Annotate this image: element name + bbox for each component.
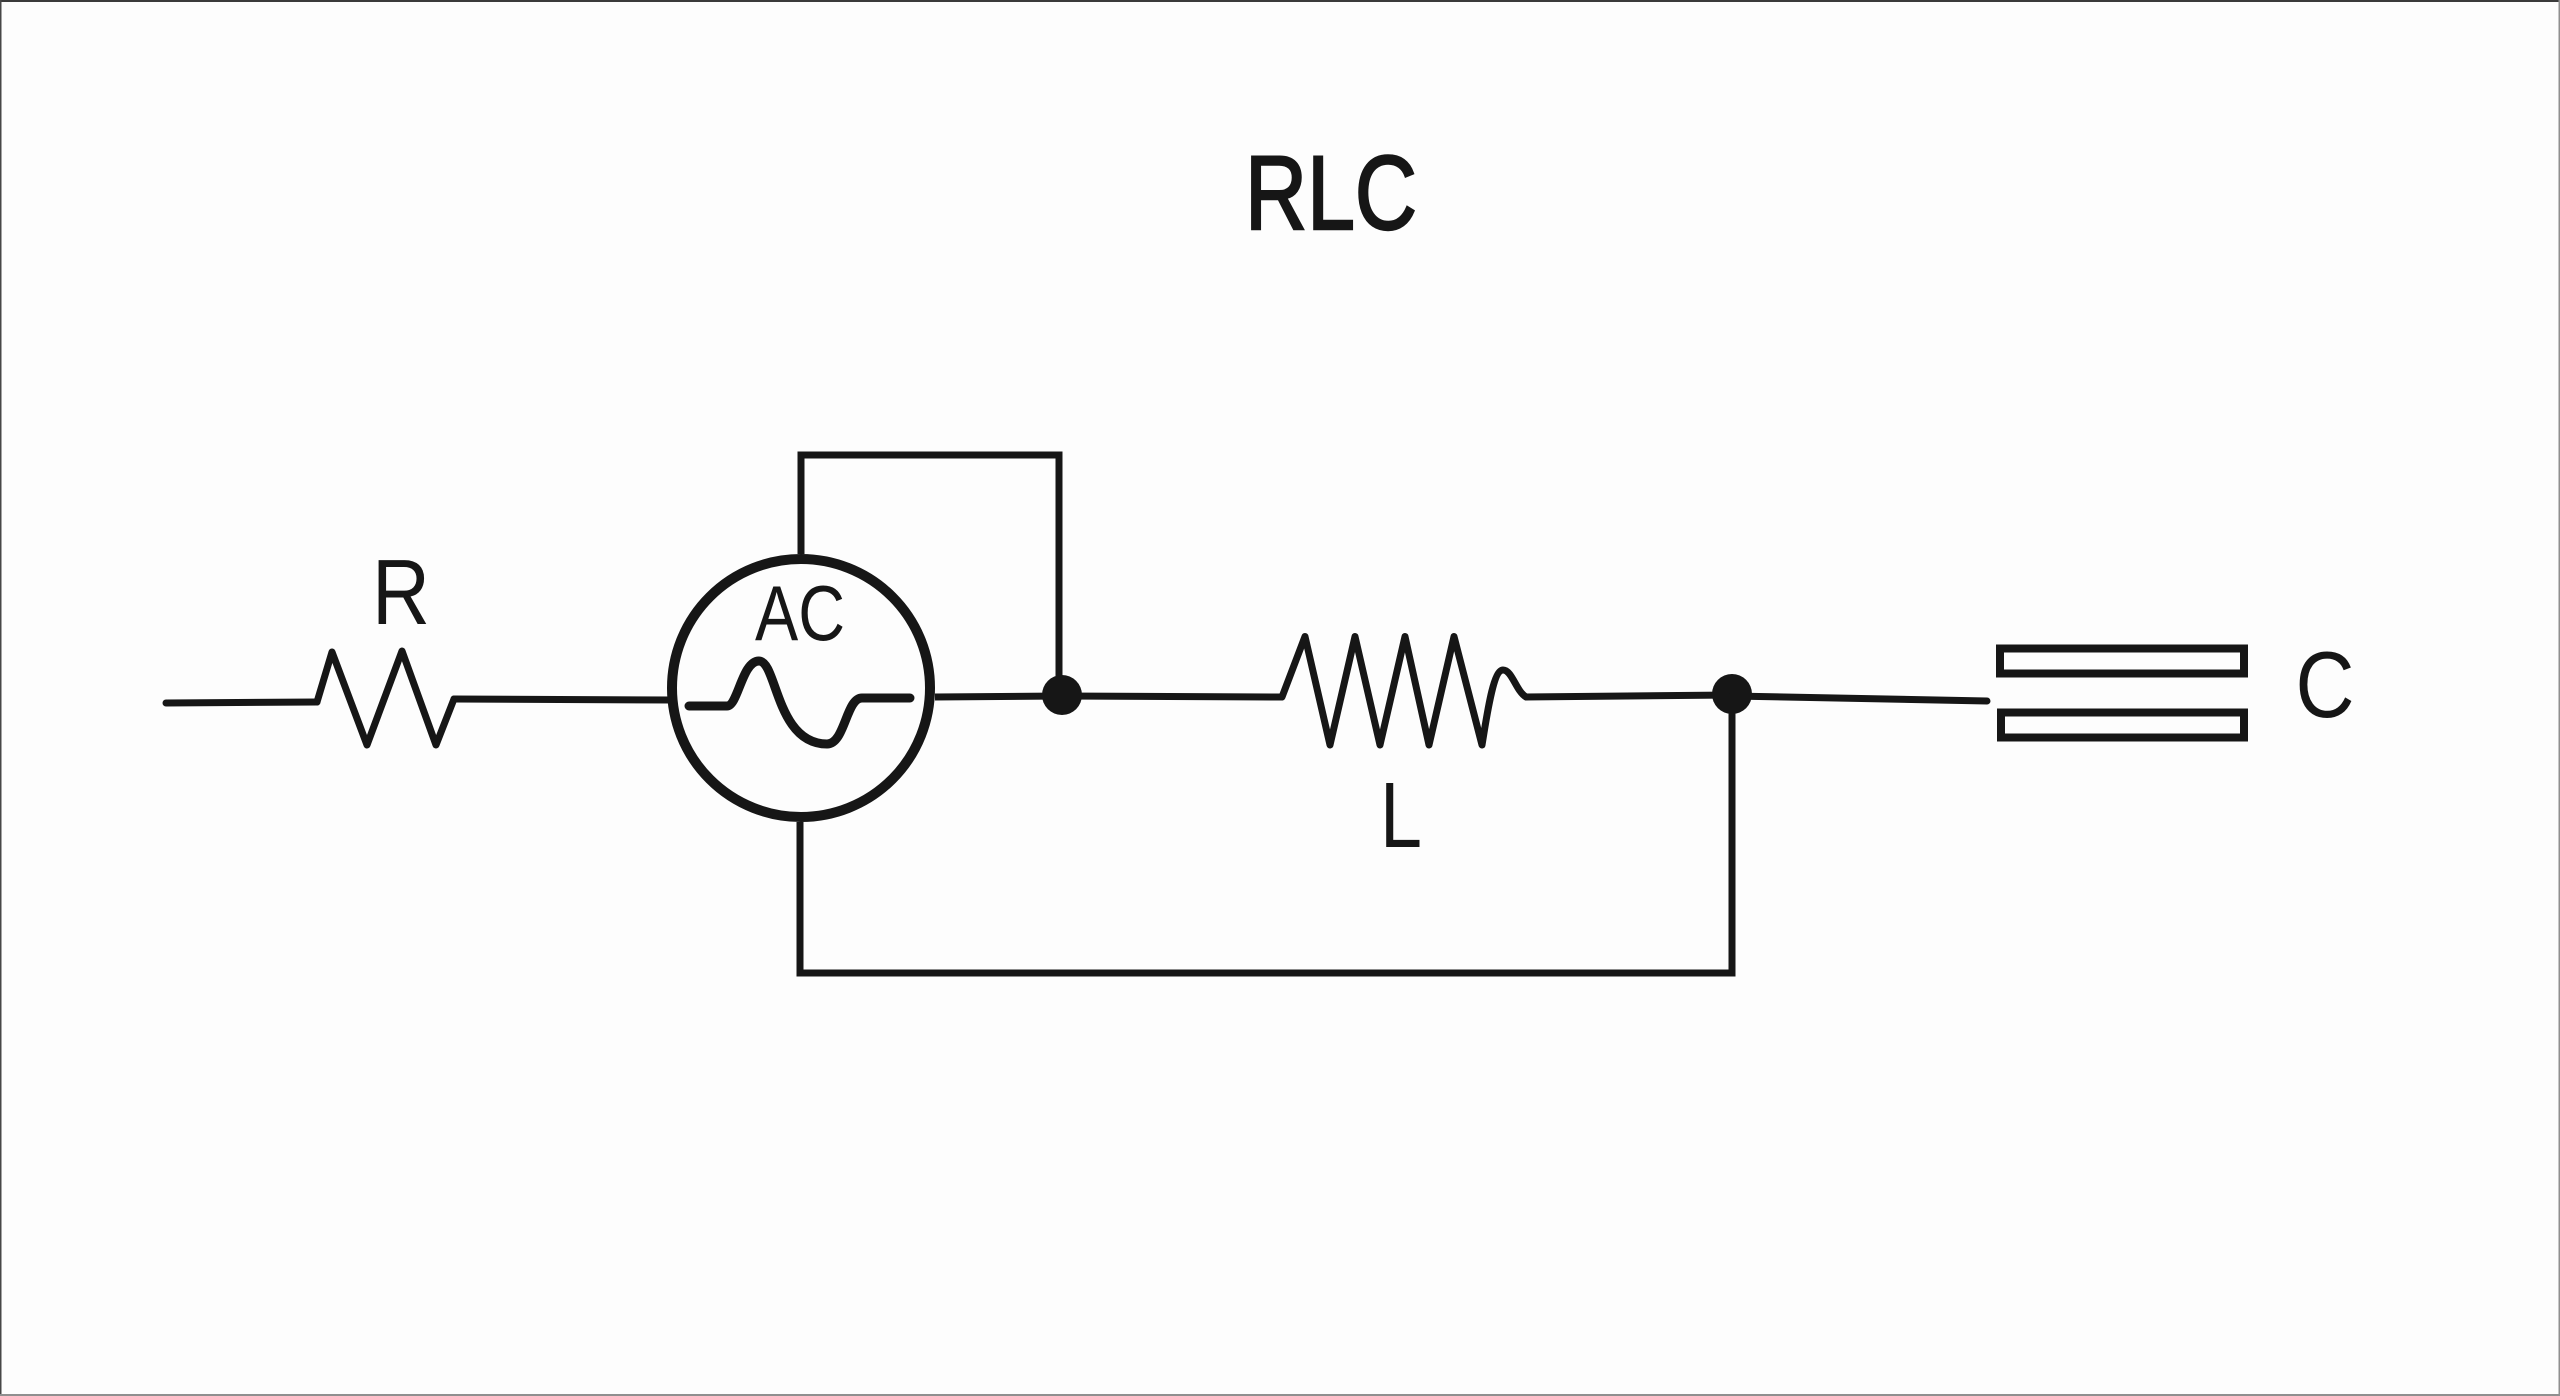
wire AC right to node A [935,696,1062,697]
wire bottom return [797,970,1736,977]
svg-text:RLC: RLC [1245,135,1417,252]
ac source U1 circle [672,559,930,817]
node A junction [1042,675,1082,715]
wire resistor to AC source [454,699,672,700]
node B junction [1712,674,1752,714]
svg-text:AC: AC [755,569,845,657]
wire AC top stub [798,452,805,555]
wire top horizontal [798,452,1063,459]
wire node B down [1729,694,1736,973]
wire top-loop right vertical [1056,452,1063,696]
sine wave inside AC source [689,661,910,744]
wire node B to capacitor [1732,696,1987,701]
svg-text:R: R [372,540,430,644]
wire AC bottom stub [797,822,804,977]
capacitor C bottom plate [2001,713,2244,738]
svg-text:L: L [1380,763,1422,867]
inductor L [1282,637,1526,746]
wire node A to inductor [1062,696,1282,697]
svg-text:C: C [2296,632,2355,737]
resistor R [317,651,454,745]
capacitor C top plate [2000,649,2244,674]
wire left lead [166,702,317,703]
wire inductor to node B [1525,695,1732,697]
